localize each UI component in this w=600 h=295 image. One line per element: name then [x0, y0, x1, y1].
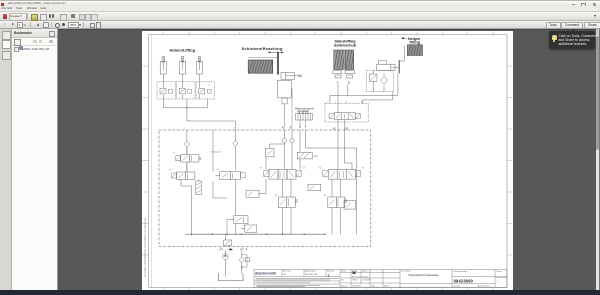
svg-text:Hydraulikplan/H-Gabestange: Hydraulikplan/H-Gabestange [408, 274, 439, 277]
pilot valve small [266, 148, 274, 157]
reach tilt-lock cylinder [281, 72, 302, 79]
port labels A B [337, 82, 351, 85]
wire sideshift A [337, 85, 339, 113]
wire tilt supply [363, 89, 393, 104]
svg-text:Y1: Y1 [173, 153, 176, 155]
check valve center inlet [233, 130, 238, 171]
tank rail [185, 233, 325, 235]
label Sideshifting Seitenschub [334, 39, 357, 47]
frame zone ticks left [143, 66, 149, 255]
svg-text:Name: Name [362, 271, 367, 273]
svg-text:Date: Date [371, 284, 375, 287]
rail junctions [191, 234, 326, 235]
svg-text:Name: Name [384, 285, 389, 287]
svg-text:1.: 1. [170, 85, 172, 87]
svg-text:1.: 1. [189, 85, 191, 87]
reach cylinder body [278, 80, 292, 127]
lowering brake valve 2 [177, 82, 196, 99]
counterbalance valve F [278, 179, 297, 234]
boundary port arrows [220, 248, 247, 251]
svg-text:File date: File date [327, 270, 334, 273]
svg-text:Boschrexroth: Boschrexroth [255, 272, 276, 276]
shuttle box center [308, 184, 321, 190]
quick coupler B1 [290, 130, 294, 170]
svg-text:Y2: Y2 [169, 170, 172, 172]
svg-text:RE 20067-1000-059/05.04 Hydra: RE 20067-1000-059/05.04 Hydraulikplan H-… [144, 217, 147, 277]
main valve enclosure dash-dot [159, 130, 371, 247]
svg-text:T: T [335, 102, 337, 104]
svg-text:2: 2 [497, 281, 498, 283]
port labels A1 B1 P T [282, 127, 307, 130]
orifice box [246, 190, 259, 197]
spring drain element [196, 179, 201, 194]
svg-text:Drawing number: Drawing number [454, 270, 468, 273]
wire sideshift B [347, 85, 349, 96]
lift cylinder 1 [160, 57, 166, 82]
frame zone ticks top [164, 32, 493, 35]
svg-text:a: a [185, 128, 187, 130]
drawing frame [149, 35, 507, 288]
toolbar row 1 [0, 12, 600, 21]
svg-text:Sheet: Sheet [497, 270, 502, 273]
wire P T rails [300, 130, 357, 234]
internal rails [181, 144, 285, 234]
wire tilt return [330, 73, 398, 103]
solenoid valve V1 [176, 155, 202, 172]
svg-text:B: B [348, 82, 350, 85]
svg-text:0,5: 0,5 [217, 169, 221, 171]
sideshift block left [334, 50, 344, 70]
port labels A2 B2 [333, 127, 349, 130]
wire tilt block to anchor [399, 46, 404, 62]
svg-text:Sturges: Sturges [362, 275, 369, 278]
svg-text:0,8: 0,8 [324, 195, 328, 197]
sideshift carriage plates [333, 71, 355, 78]
solenoid valve V2 [172, 172, 195, 179]
svg-text:Schieben/Reaching: Schieben/Reaching [242, 46, 283, 51]
pump feed valve [224, 234, 232, 247]
svg-text:Y5: Y5 [319, 167, 322, 169]
logo mark [353, 271, 356, 275]
label Mastensenkventil [295, 107, 314, 113]
tilt valve dashed box [367, 71, 394, 92]
svg-text:0,8: 0,8 [275, 195, 279, 197]
svg-text:Aug. 13: Aug. 13 [341, 284, 348, 287]
aux valve H [344, 201, 356, 210]
svg-text:Chang. No.: Chang. No. [352, 285, 362, 287]
bottom dark band [0, 290, 600, 295]
tank [219, 273, 244, 280]
sideshift valve dashed box [325, 103, 368, 122]
svg-text:A: A [337, 82, 339, 85]
svg-text:99423690: 99423690 [454, 279, 474, 284]
svg-text:Replacement for: Replacement for [477, 284, 491, 287]
bypass valve lower [241, 225, 257, 232]
svg-text:DBV: DBV [314, 156, 319, 158]
component tag labels [169, 128, 365, 252]
main directional valve D [264, 170, 302, 180]
svg-text:Seitenschub: Seitenschub [334, 44, 357, 48]
reach stroke arrow [268, 51, 284, 54]
lift section valve lower [227, 216, 248, 235]
svg-text:Tilting: Tilting [409, 41, 420, 45]
svg-text:Description: Description [401, 270, 410, 273]
lowering brake valve 3 [196, 82, 214, 99]
reach piston rod (bold) [277, 53, 279, 75]
reach mast hatched block [248, 60, 273, 73]
svg-text:T: T [246, 250, 248, 252]
svg-text:4.0: 4.0 [341, 280, 344, 282]
frame zone ticks bottom [164, 287, 493, 290]
wires P T from mast valve [300, 120, 306, 127]
tilt mast block [407, 45, 422, 56]
label Neigen Tilting [402, 37, 422, 45]
bookmarks panel [12, 29, 58, 290]
svg-text:99971065_GB: 99971065_GB [305, 274, 318, 276]
title bar [0, 0, 600, 6]
title texts [283, 270, 502, 288]
check valve lift inlet [184, 130, 189, 155]
main directional valve E [323, 170, 361, 180]
mast top rail [248, 57, 277, 59]
tilt lock valve [370, 71, 388, 92]
svg-text:Doc-No: Doc-No [454, 285, 460, 287]
svg-text:Datum: Datum [352, 270, 358, 273]
svg-text:GB: GB [283, 274, 286, 276]
wire lift manifold [163, 99, 235, 130]
wires A2 B2 [338, 120, 344, 134]
return filter [239, 250, 249, 273]
toolbar row 2 [0, 21, 600, 29]
svg-text:1.: 1. [208, 85, 210, 87]
sideshift block right [345, 50, 353, 70]
pump [223, 250, 229, 277]
svg-text:1x Drossel: 1x Drossel [211, 151, 222, 154]
svg-text:Approved by: Approved by [305, 270, 316, 273]
svg-text:77600: 77600 [352, 280, 357, 282]
junction lift [186, 107, 187, 108]
svg-text:Y6: Y6 [362, 167, 365, 169]
svg-text:Y4: Y4 [303, 167, 306, 169]
svg-text:T: T [305, 128, 307, 130]
tooltip popup [549, 31, 595, 49]
svg-text:P: P [299, 128, 301, 130]
lift cylinder 2 [180, 57, 186, 82]
title block [254, 269, 507, 287]
frame zone ticks right [507, 66, 512, 255]
menu bar [0, 6, 600, 12]
sideshift box port labels [327, 101, 364, 104]
left icon strip [0, 29, 12, 290]
wire B1 from reach [290, 89, 293, 127]
svg-text:Y3: Y3 [260, 167, 263, 169]
svg-text:B1: B1 [290, 128, 294, 130]
scrollbar [596, 29, 600, 290]
svg-text:Resp.: Resp. [341, 271, 346, 273]
svg-text:1. N 2133: 1. N 2133 [362, 280, 370, 282]
fine print lines [256, 278, 340, 286]
tilt cylinder [377, 60, 400, 73]
svg-text:File name: File name [283, 271, 291, 273]
svg-text:Nov 11.03: Nov 11.03 [352, 276, 360, 278]
svg-text:1: 1 [328, 274, 330, 278]
quick coupler A1 [282, 130, 286, 170]
wire vertical x213 [212, 130, 214, 191]
pressure relief DBV [297, 152, 318, 159]
mast lowering valve block [296, 112, 313, 120]
lift cylinder 3 [196, 57, 202, 82]
lowering brake valve 1 [157, 82, 176, 99]
svg-text:Heben/Lifting: Heben/Lifting [170, 47, 196, 52]
svg-text:A1: A1 [282, 127, 286, 130]
page with schematic [142, 31, 513, 290]
sideshift directional valve [329, 113, 360, 120]
flow control valve V3 [216, 172, 246, 216]
counterbalance valve G [328, 179, 347, 234]
